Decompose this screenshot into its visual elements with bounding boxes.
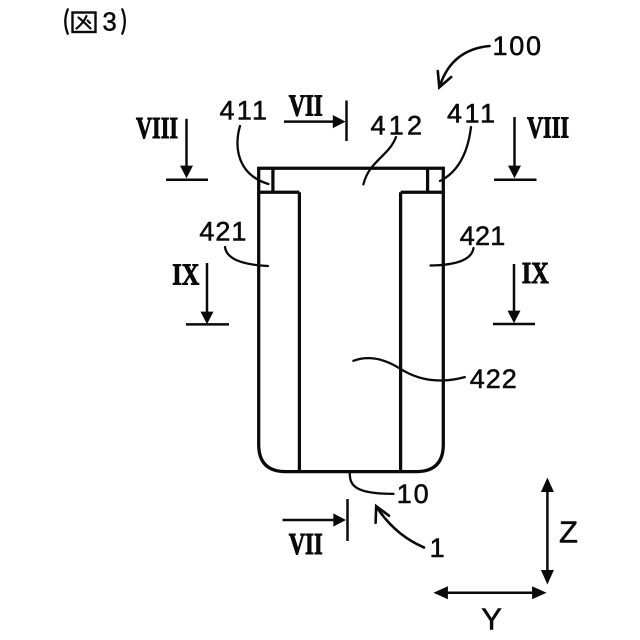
- step line below left corner piece: [257, 191, 299, 194]
- svg-text:VII: VII: [289, 88, 323, 123]
- leader line 411 left: [237, 126, 268, 184]
- svg-text:422: 422: [470, 364, 517, 394]
- corner piece 411 right: vertical divider: [426, 168, 429, 192]
- leader line 421 left: [225, 247, 268, 266]
- svg-text:1: 1: [430, 533, 445, 563]
- case body outline (outer): [259, 168, 444, 471]
- svg-text:10: 10: [397, 479, 429, 509]
- svg-text:100: 100: [493, 31, 542, 61]
- svg-text:VIII: VIII: [527, 110, 569, 145]
- leader line 422 (wavy): [353, 358, 464, 380]
- corner piece 411 left: vertical divider: [271, 168, 274, 192]
- leader line 412: [363, 137, 396, 184]
- axis Y: [433, 586, 546, 636]
- step line below right corner piece: [401, 191, 445, 194]
- svg-text:IX: IX: [172, 257, 199, 292]
- svg-text:411: 411: [220, 96, 268, 126]
- inner wall right 421: [399, 192, 402, 471]
- section marker IX right: [493, 255, 549, 324]
- svg-text:VII: VII: [289, 526, 323, 561]
- inner wall left 421: [298, 192, 301, 471]
- axis Z: [541, 478, 578, 585]
- leader arrow for 100 (open V head): [438, 46, 490, 87]
- svg-text:IX: IX: [522, 255, 549, 290]
- svg-text:411: 411: [447, 99, 495, 129]
- svg-text:VIII: VIII: [136, 110, 178, 145]
- svg-text:Y: Y: [481, 602, 502, 637]
- svg-text:Z: Z: [559, 515, 578, 550]
- section marker VII top: [284, 88, 347, 142]
- section marker VIII left: [136, 110, 208, 180]
- leader arrow for 1 (open V head): [376, 506, 424, 547]
- leader line 411 right: [440, 127, 471, 181]
- svg-text:421: 421: [460, 221, 506, 251]
- figure title (図3): [65, 9, 125, 37]
- section marker VIII right: [494, 110, 569, 180]
- svg-text:421: 421: [199, 217, 246, 247]
- section marker VII bottom: [283, 499, 348, 561]
- leader line 10: [350, 472, 394, 494]
- leader line 421 right: [431, 248, 474, 266]
- section marker IX left: [172, 257, 229, 325]
- svg-text:3: 3: [103, 9, 117, 37]
